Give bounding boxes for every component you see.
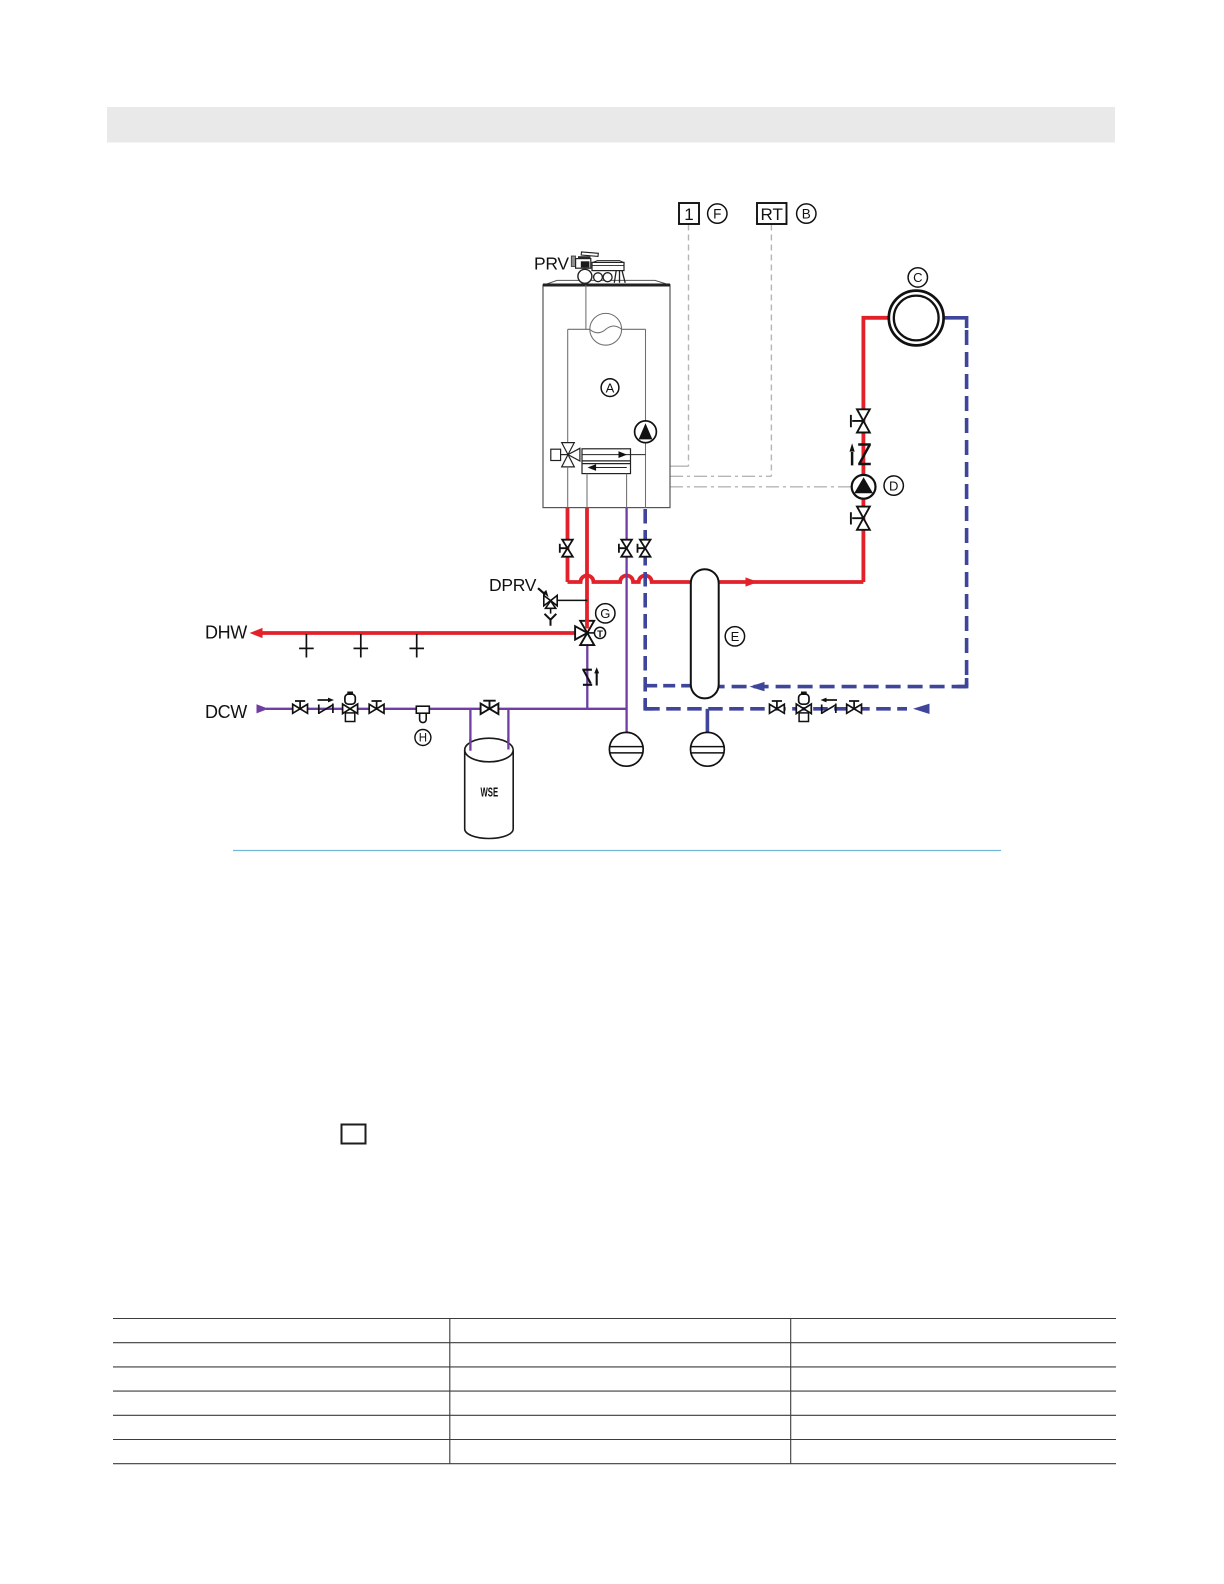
boiler internal return line xyxy=(645,329,647,507)
pipe: DCW main line (purple) xyxy=(266,708,627,710)
pipe: DCW arrow xyxy=(257,704,269,713)
plate heat exchanger xyxy=(582,449,646,474)
valve: boiler return isolation xyxy=(638,540,651,557)
svg-text:A: A xyxy=(606,380,615,395)
node T (thermostat sensor) xyxy=(594,627,605,640)
pipe: DHW red overlay into mixing valve xyxy=(585,619,589,629)
fixture drop 3 xyxy=(409,634,424,658)
pipe: cold water from boiler to expansion tank (purple) xyxy=(625,508,627,733)
valve: DCW second isolation xyxy=(369,701,384,713)
svg-text:H: H xyxy=(419,733,427,745)
svg-text:DCW: DCW xyxy=(205,702,247,722)
boiler internals: flue stub xyxy=(585,285,587,329)
wire: control line boiler to pump D xyxy=(670,486,851,488)
valve: DCW inlet isolation xyxy=(293,701,308,713)
svg-text:C: C xyxy=(913,270,922,285)
pipe: mixing valve cold feed (purple) xyxy=(586,645,588,709)
check valve on fill line xyxy=(822,700,837,714)
low loss header E xyxy=(691,569,719,698)
check valve below mixing valve xyxy=(582,670,596,686)
divider rule (light blue) xyxy=(233,850,1001,852)
boiler internal pump xyxy=(635,421,657,443)
pipe: fill line inlet arrow xyxy=(913,704,930,714)
pipe: return branch to header (blue dashed) xyxy=(645,684,691,688)
expansion tank 1 xyxy=(609,732,643,766)
valve: boiler supply isolation xyxy=(560,540,573,557)
boiler A cabinet xyxy=(543,280,670,507)
valve: zone supply isolation upper xyxy=(851,409,870,432)
fill line valve 1 xyxy=(770,701,785,713)
box RT (room thermostat) xyxy=(757,203,787,224)
pipe: make-up / fill line (blue dashed) xyxy=(645,707,907,711)
heating zone circulator C xyxy=(889,291,944,346)
diverter valve (3-way) with actuator xyxy=(551,443,580,467)
boiler supply stub below diverter valve xyxy=(567,467,569,508)
pipe: system return to header (blue dashed) xyxy=(719,685,967,689)
node F xyxy=(708,204,727,223)
checkbox xyxy=(342,1125,366,1144)
pipe: WSE inlet stub xyxy=(469,709,471,751)
pipe: supply flow arrow xyxy=(746,577,759,586)
boiler internal supply line xyxy=(567,329,569,443)
pipe: boiler return (blue dashed) xyxy=(643,509,647,709)
node H xyxy=(415,730,431,746)
svg-text:1: 1 xyxy=(684,205,693,224)
pipe: boiler heating supply (red) with crossover hops xyxy=(568,318,889,582)
pipe: DHW from boiler to mixing valve (red) xyxy=(585,508,589,629)
svg-text:WSE: WSE xyxy=(480,787,498,800)
fixture drop 1 xyxy=(299,634,314,658)
valve: boiler cold feed isolation xyxy=(619,540,632,557)
node D xyxy=(884,476,903,495)
wire: control line from box 1 to boiler xyxy=(670,225,689,467)
svg-text:E: E xyxy=(731,629,740,644)
svg-text:F: F xyxy=(713,206,721,221)
water softener WSE xyxy=(465,738,514,838)
table xyxy=(113,1319,1116,1464)
wire: control line from RT to boiler xyxy=(670,225,771,477)
node C xyxy=(908,268,927,287)
mixing valve G xyxy=(575,621,594,645)
svg-text:B: B xyxy=(802,206,811,221)
PRV assembly on boiler top xyxy=(571,252,625,283)
valve: zone supply isolation lower xyxy=(851,507,870,530)
fixture drop 2 xyxy=(354,634,369,658)
heat exchanger xyxy=(568,313,646,345)
pipe: system return top (blue solid at circulator) xyxy=(944,318,967,328)
WSE inlet dip tubes over tank top xyxy=(470,738,508,750)
pipe: WSE outlet stub xyxy=(507,709,509,750)
pipe: fill line corner piece xyxy=(645,700,654,709)
drain / test fitting H xyxy=(416,706,429,722)
pipe: DHW distribution line (red) xyxy=(260,631,575,635)
check valve on DCW xyxy=(318,700,333,714)
svg-text:DHW: DHW xyxy=(205,623,247,643)
pressure reducing valve on DCW xyxy=(343,693,358,722)
WSE bypass valve xyxy=(481,701,499,714)
fill line valve 2 xyxy=(847,701,862,713)
pump D xyxy=(852,475,876,499)
pipe: return flow arrow into header xyxy=(750,682,765,691)
svg-text:D: D xyxy=(889,478,898,493)
fill pressure reducing valve xyxy=(796,693,811,722)
node E xyxy=(725,627,744,646)
balancing valve above pump D xyxy=(852,445,871,466)
pipe: DHW arrow xyxy=(250,628,263,638)
svg-text:RT: RT xyxy=(761,205,783,224)
node B xyxy=(797,204,816,223)
box 1 (terminal F) xyxy=(679,203,699,224)
svg-text:DPRV: DPRV xyxy=(489,575,537,595)
pipe: stub to expansion tank 2 (blue) xyxy=(706,709,710,733)
node A xyxy=(601,379,619,397)
node G xyxy=(596,604,615,623)
DPRV bypass valve xyxy=(538,588,587,626)
svg-text:G: G xyxy=(600,606,610,621)
header band xyxy=(107,107,1115,143)
svg-text:PRV: PRV xyxy=(534,254,569,274)
pipe: return corner piece xyxy=(957,678,967,687)
plate HX outlet stubs xyxy=(587,474,627,508)
svg-text:T: T xyxy=(597,629,603,640)
expansion tank 2 xyxy=(691,732,725,766)
pipe: system return drop (blue dashed) xyxy=(965,330,969,687)
